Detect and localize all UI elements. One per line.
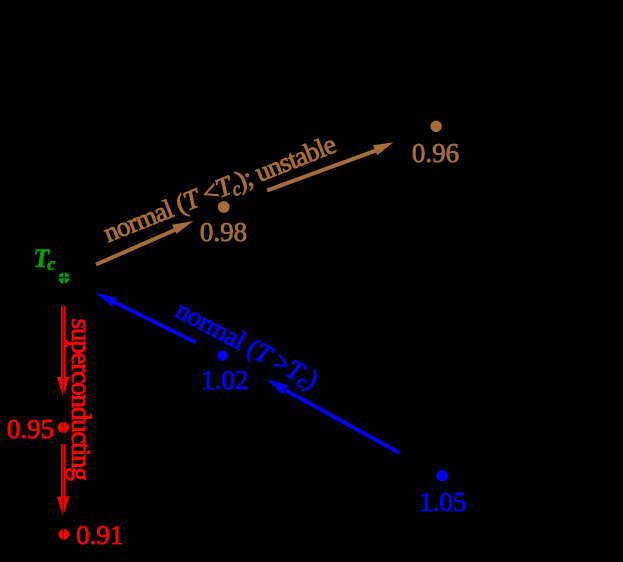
svg-text:1.02: 1.02: [201, 365, 248, 395]
svg-text:0.95: 0.95: [7, 414, 54, 444]
svg-text:superconducting: superconducting: [66, 319, 96, 481]
svg-text:0.96: 0.96: [412, 138, 459, 168]
svg-text:0.98: 0.98: [200, 217, 247, 247]
svg-text:0.91: 0.91: [76, 520, 123, 550]
svg-text:1.05: 1.05: [419, 487, 466, 517]
